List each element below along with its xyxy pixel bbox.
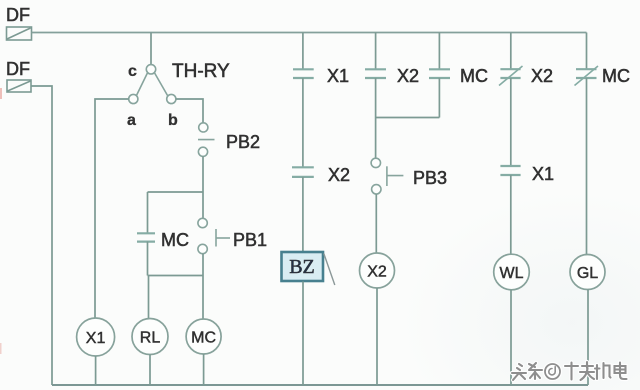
svg-text:a: a (127, 112, 136, 129)
contact X2 branch2 (NO) (365, 69, 386, 78)
fuse DF1 (7, 27, 32, 40)
buzzer BZ (282, 252, 335, 285)
wire down to MC contact (147, 192, 149, 233)
pushbutton PB1 (198, 218, 230, 253)
wire contact X1 branch4 to lamp WL (510, 175, 512, 255)
top rail (32, 32, 587, 34)
red scan mark left edge upper (0, 88, 2, 99)
svg-text:BZ: BZ (289, 256, 315, 278)
pushbutton PB2 (198, 123, 215, 157)
coil MC (186, 319, 221, 354)
svg-text:c: c (128, 63, 137, 80)
red scan mark left edge lower (0, 343, 2, 354)
wire MC contact down (147, 242, 149, 276)
contact X2 branch4 (NC) (499, 66, 523, 86)
svg-text:X1: X1 (86, 330, 106, 347)
wire buzzer BZ to bottom rail (302, 282, 304, 386)
wire rail to contact MC branch3 (438, 33, 440, 70)
svg-text:DF: DF (6, 59, 30, 79)
wire PB1 down (202, 254, 204, 276)
wire joining branch2 and branch3 (376, 117, 440, 119)
wire to lamp RL (148, 276, 150, 319)
wire PB3 to lamp X2 (375, 194, 377, 253)
wire down to PB1 (202, 192, 204, 218)
svg-text:TH-RY: TH-RY (172, 61, 230, 82)
svg-text:MC: MC (460, 66, 488, 86)
wire contact X2 branch2 down (375, 78, 377, 118)
contact X1 (NO) (293, 69, 314, 78)
svg-text:RL: RL (140, 330, 161, 347)
contact MC branch5 (NC) (575, 66, 599, 86)
fuse DF2 (7, 80, 31, 92)
contact X1 branch4 (NO) (500, 166, 520, 175)
wire lamp X1 to bottom rail (95, 356, 97, 385)
wire lamp WL to bottom rail (510, 290, 512, 385)
wire rail to contact MC NC branch5 (586, 33, 588, 70)
contact MC (self-holding) (137, 233, 155, 241)
svg-text:GL: GL (577, 265, 598, 282)
svg-text:X2: X2 (367, 264, 387, 281)
svg-text:MC: MC (191, 330, 216, 347)
svg-text:b: b (168, 112, 178, 129)
wire DF2 to left rail (31, 86, 52, 385)
wire lamp GL to bottom rail (587, 290, 589, 386)
svg-text:PB3: PB3 (413, 168, 447, 188)
node b of TH-RY (167, 94, 176, 103)
lamp WL (494, 254, 530, 290)
wire junction top of MC contact branch (148, 191, 204, 193)
wire rail to contact X1 (302, 33, 304, 70)
lamp RL (132, 319, 168, 355)
wire PB2 down (202, 156, 204, 192)
wire lamp X2 to bottom rail (376, 288, 378, 385)
svg-text:PB1: PB1 (233, 230, 267, 250)
svg-text:X1: X1 (532, 164, 554, 184)
wire contact MC branch3 down (438, 78, 440, 118)
wire rail to TH-RY (150, 33, 152, 65)
wire contact MC branch5 to lamp GL (586, 78, 588, 255)
svg-text:X2: X2 (397, 66, 419, 86)
wire contact X1 to contact X2 (302, 78, 304, 167)
watermark (512, 362, 627, 380)
svg-text:WL: WL (500, 265, 524, 282)
pushbutton PB3 (371, 158, 403, 194)
wire a to lamp X1 (95, 99, 129, 319)
wire to coil MC (202, 276, 204, 320)
wire contact X2 to buzzer BZ (302, 177, 304, 252)
wire junction bottom (148, 275, 204, 277)
bottom rail (52, 384, 588, 386)
svg-text:X2: X2 (328, 165, 350, 185)
wire lamp RL to bottom rail (149, 355, 151, 386)
lamp X2 (360, 253, 395, 288)
node a of TH-RY (129, 94, 138, 103)
wire b to PB2 (176, 99, 203, 123)
contact MC branch3 (NO) (429, 69, 450, 78)
svg-text:DF: DF (6, 5, 30, 25)
svg-text:MC: MC (602, 66, 630, 86)
wire c to b (154, 73, 167, 96)
svg-text:MC: MC (161, 230, 189, 250)
wire coil MC to bottom rail (203, 354, 205, 385)
lamp X1 (77, 318, 115, 356)
contact X2 (NO) (292, 167, 314, 177)
node c of TH-RY (146, 65, 155, 74)
wire junction to PB3 (375, 118, 377, 159)
wire rail to contact X2 (second branch) (375, 33, 377, 70)
wire c to a (136, 73, 147, 96)
svg-text:PB2: PB2 (226, 132, 260, 152)
lamp GL (570, 255, 605, 290)
svg-text:X2: X2 (531, 66, 553, 86)
wire to contact X1 branch4 (510, 78, 512, 166)
svg-text:X1: X1 (327, 66, 349, 86)
wire rail to contact X2 NC branch4 (510, 33, 512, 70)
